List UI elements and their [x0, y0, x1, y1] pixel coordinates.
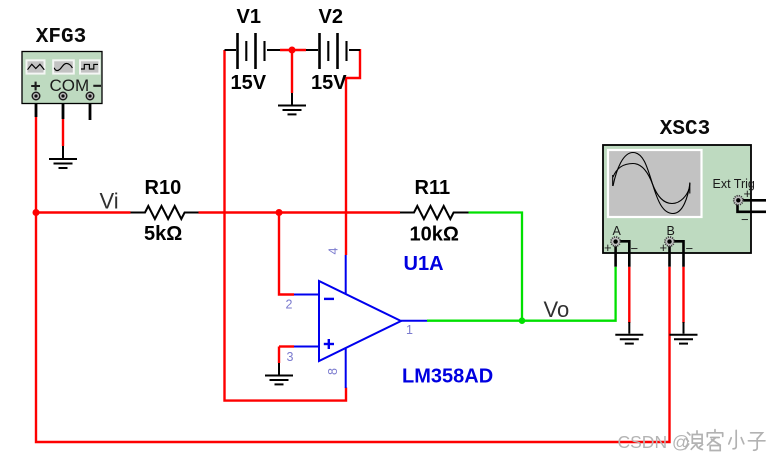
svg-text:COM: COM — [50, 76, 90, 95]
svg-text:A: A — [613, 224, 622, 238]
svg-text:V1: V1 — [237, 6, 261, 28]
svg-text:2: 2 — [286, 298, 293, 312]
svg-text:−: − — [631, 241, 639, 256]
svg-text:LM358AD: LM358AD — [402, 366, 493, 388]
svg-text:XFG3: XFG3 — [36, 26, 86, 49]
svg-text:R10: R10 — [145, 177, 182, 199]
svg-text:15V: 15V — [311, 72, 347, 94]
svg-text:1: 1 — [406, 323, 413, 337]
svg-text:CSDN @: CSDN @ — [618, 432, 690, 452]
svg-text:U1A: U1A — [404, 253, 444, 275]
svg-text:Vi: Vi — [100, 189, 119, 214]
svg-text:V2: V2 — [319, 6, 343, 28]
svg-text:R11: R11 — [415, 177, 451, 199]
svg-text:5kΩ: 5kΩ — [144, 223, 182, 245]
svg-text:B: B — [667, 224, 675, 238]
svg-text:8: 8 — [326, 368, 340, 375]
svg-text:10kΩ: 10kΩ — [410, 224, 459, 246]
svg-text:XSC3: XSC3 — [660, 118, 710, 141]
svg-text:−: − — [741, 212, 749, 227]
svg-text:Vo: Vo — [544, 297, 570, 322]
svg-text:+: + — [744, 186, 752, 201]
svg-text:15V: 15V — [231, 72, 267, 94]
svg-text:4: 4 — [327, 247, 341, 254]
svg-text:−: − — [686, 241, 694, 256]
svg-text:3: 3 — [287, 350, 294, 364]
